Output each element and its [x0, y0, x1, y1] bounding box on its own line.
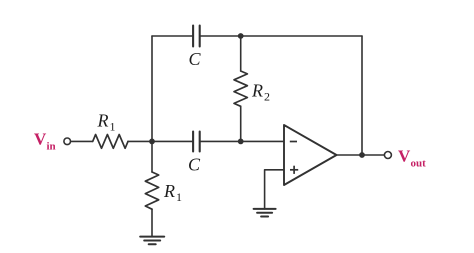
svg-text:1: 1 — [110, 120, 116, 134]
net Vin label — [34, 130, 56, 153]
wire top horizontal left segment (to top capacitor) — [152, 35, 193, 37]
resistor R2 (vertical zigzag) — [234, 71, 247, 106]
wire op-amp output to output node — [337, 154, 363, 156]
svg-text:C: C — [188, 155, 201, 175]
resistor R1 (shunt to ground, vertical zigzag) — [145, 172, 158, 209]
wire node B to op-amp inverting input — [241, 140, 284, 142]
svg-text:R: R — [251, 81, 263, 101]
op-amp U1 (triangle) — [284, 125, 337, 185]
wire shunt R1 to ground — [151, 209, 153, 236]
wire output node to output terminal — [362, 154, 384, 156]
svg-text:2: 2 — [264, 90, 270, 104]
wire node A to middle capacitor — [152, 140, 193, 142]
wire resistor R1 to node A — [128, 140, 152, 142]
resistor R1 (series input, horizontal zigzag) — [93, 135, 128, 149]
node: output junction — [359, 152, 365, 158]
wire top-left rail: left vertical from top wire down to input node — [151, 36, 153, 141]
svg-text:R: R — [163, 181, 175, 201]
svg-text:V: V — [34, 130, 47, 149]
wire R2 branch lower stub — [240, 106, 242, 141]
label R2 — [251, 81, 270, 104]
svg-text:C: C — [189, 49, 202, 69]
wire R2 branch upper stub — [240, 36, 242, 71]
node: top junction of R2 and feedback capacitor — [238, 33, 244, 39]
node B: junction of capacitor, R2 and inverting input — [238, 139, 244, 145]
wire op-amp noninverting input to ground — [265, 170, 284, 209]
node A: junction of R1, R1 shunt and capacitor — [149, 139, 155, 145]
capacitor C (series, middle) — [193, 132, 200, 152]
ground (op-amp noninverting input) — [254, 209, 276, 217]
label R1 (shunt resistor) — [163, 181, 182, 204]
wire top horizontal right segment (capacitor to right rail) — [200, 35, 362, 37]
op-amp plus sign (noninverting input mark) — [290, 166, 298, 174]
label C (middle capacitor) — [188, 155, 201, 175]
svg-text:1: 1 — [176, 190, 182, 204]
label C (top capacitor) — [189, 49, 202, 69]
wire input terminal to resistor R1 — [71, 140, 93, 142]
net Vout label — [398, 147, 426, 170]
capacitor C (top feedback) — [193, 26, 200, 47]
output terminal (open circle) — [384, 152, 391, 159]
wire shunt R1 upper stub — [151, 141, 153, 172]
label R1 (series resistor) — [97, 111, 116, 134]
wire right vertical rail down to output node — [361, 36, 363, 155]
svg-text:in: in — [47, 141, 56, 153]
ground (below shunt R1) — [140, 237, 164, 245]
input terminal (open circle) — [64, 138, 71, 145]
svg-text:out: out — [411, 158, 427, 170]
svg-text:R: R — [97, 111, 109, 131]
wire middle capacitor to node B — [200, 140, 241, 142]
op-amp minus sign (inverting input mark) — [290, 141, 297, 143]
svg-text:V: V — [398, 147, 411, 166]
